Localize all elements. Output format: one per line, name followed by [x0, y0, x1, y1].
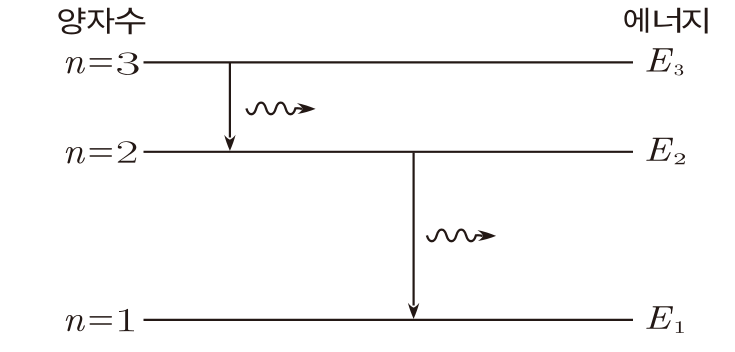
photon wavy arrow (n=2 to n=1 transition) [427, 230, 496, 242]
label energy (Korean 에너지) [624, 8, 707, 34]
transition arrow n=2 to n=1 (shaft) [413, 153, 415, 306]
label E1 [646, 306, 684, 333]
energy level line n=1 [144, 319, 634, 321]
photon arrowhead [297, 103, 316, 114]
label E2 [646, 138, 685, 165]
transition arrow n=3 to n=2 (arrowhead) [224, 135, 235, 151]
photon wavy arrow (n=3 to n=2 transition) [246, 103, 315, 115]
label n=3 [66, 52, 139, 75]
transition arrow n=2 to n=1 (arrowhead) [408, 303, 419, 319]
photon wave [246, 103, 302, 115]
transition arrow n=3 to n=2 (shaft) [229, 64, 231, 138]
label E3 [646, 48, 683, 75]
energy level line n=3 [144, 61, 634, 63]
label n=2 [66, 141, 137, 163]
energy level line n=2 [144, 151, 634, 153]
label quantum-number (Korean 양자수) [58, 8, 145, 35]
label n=1 [66, 309, 134, 331]
